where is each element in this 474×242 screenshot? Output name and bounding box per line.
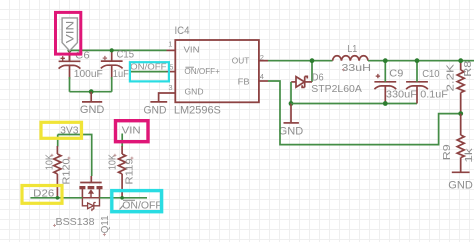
pin stub IC4 pin2 — [259, 60, 268, 62]
svg-text:GND: GND — [279, 125, 304, 137]
svg-text:0.1uF: 0.1uF — [420, 89, 448, 101]
svg-text:VIN: VIN — [65, 21, 77, 44]
net label ON/OFF (upper) — [130, 61, 167, 71]
svg-text:GND: GND — [80, 104, 105, 116]
IC IC4 LM2596S body — [175, 40, 259, 102]
body diode — [88, 203, 94, 209]
pin label ON/OFF+ — [184, 67, 220, 76]
substrate arrow — [90, 193, 92, 198]
capacitor C9 — [374, 74, 396, 104]
node junction R119-ONOFF — [120, 196, 124, 200]
svg-text:4: 4 — [260, 72, 264, 81]
wire gate from 3V3 — [91, 146, 93, 176]
wire D26 net — [30, 197, 82, 199]
svg-text:R9: R9 — [441, 144, 453, 160]
svg-text:C9: C9 — [389, 68, 403, 80]
svg-text:GND: GND — [448, 180, 473, 192]
svg-text:3: 3 — [168, 83, 172, 92]
resistor R120 — [54, 146, 61, 198]
svg-text:2.2K: 2.2K — [445, 64, 457, 92]
ground GND2 under diode — [284, 104, 299, 123]
svg-text:BSS138: BSS138 — [56, 216, 95, 228]
svg-text:OUT: OUT — [232, 56, 250, 65]
wire diode anode down — [290, 82, 292, 104]
source lead — [99, 189, 101, 198]
svg-text:GND: GND — [185, 88, 204, 97]
node junction caps-gnd — [89, 89, 94, 94]
svg-text:L1: L1 — [347, 43, 357, 55]
svg-text:ON/OFF: ON/OFF — [122, 200, 162, 211]
annotation magenta box VIN lower — [116, 121, 149, 142]
gate plate — [80, 182, 102, 184]
svg-text:IC4: IC4 — [175, 25, 190, 37]
wire caps bottom leads — [70, 77, 112, 92]
svg-text:100uF: 100uF — [74, 68, 103, 80]
wire FB net — [268, 81, 461, 145]
svg-text:ON/OFF+: ON/OFF+ — [184, 67, 220, 76]
node junction C9 top — [383, 58, 388, 63]
channel bars — [79, 186, 102, 189]
svg-text:D6: D6 — [312, 71, 324, 83]
svg-text:R119: R119 — [124, 158, 135, 185]
capacitor C10 — [406, 82, 428, 104]
node junction C9 bottom — [383, 101, 388, 106]
node junction at C6 — [67, 48, 71, 52]
node junction R8-R9-FB — [458, 111, 463, 116]
wire C10 top lead — [416, 61, 418, 82]
svg-text:FB: FB — [238, 78, 250, 87]
svg-text:C15: C15 — [117, 49, 135, 61]
svg-text:33uH: 33uH — [342, 62, 372, 74]
annotation yellow box D26 — [22, 186, 62, 204]
inductor L1 — [333, 56, 368, 61]
node junction OUT-diode — [310, 58, 315, 63]
svg-text:LM2596S: LM2596S — [174, 104, 221, 116]
text origin cross marks (Eagle anchors) — [50, 68, 345, 236]
wire C9 top lead — [384, 61, 386, 82]
wire diode branch down — [311, 61, 313, 82]
ground GND1 under caps — [82, 92, 102, 102]
svg-text:D26: D26 — [33, 188, 54, 200]
annotation cyan box ON/OFF upper — [130, 62, 169, 81]
annotation yellow box 3V3 — [41, 122, 82, 138]
svg-text:GND: GND — [144, 104, 167, 116]
annotation magenta box VIN top — [56, 12, 81, 54]
svg-text:10K: 10K — [107, 154, 118, 170]
svg-text:STP2L60A: STP2L60A — [311, 83, 362, 95]
diode D6 schottky — [291, 76, 312, 87]
node junction diode-gnd-rail — [289, 101, 294, 106]
svg-text:Q11: Q11 — [100, 215, 111, 233]
wire OUT rail after L1 — [368, 60, 474, 62]
wire OUT rail — [268, 60, 333, 62]
wire ON/OFF lower net — [100, 197, 148, 199]
wire C15 top lead — [111, 50, 113, 61]
node junction R8 top — [458, 58, 463, 63]
resistor R8 — [457, 61, 464, 114]
wire pin3 to ground — [159, 93, 176, 101]
svg-text:10K: 10K — [44, 154, 55, 170]
wire bottom rail output caps — [291, 103, 417, 105]
ground GND3 under R9 — [452, 171, 470, 173]
wire C6 top lead — [69, 48, 71, 61]
svg-text:R120: R120 — [61, 158, 72, 185]
capacitor C6 — [59, 56, 81, 79]
body diode loop — [82, 197, 99, 199]
node junction R120-D26 — [56, 196, 60, 200]
capacitor C15 — [101, 56, 123, 79]
drain lead — [81, 189, 83, 198]
wire VIN net top: flag to pin1 — [70, 49, 167, 51]
annotation cyan box ON/OFF lower — [112, 191, 162, 212]
wire bottom rail caps — [70, 91, 112, 93]
svg-text:1: 1 — [168, 39, 172, 48]
pin stub IC4 pin5 — [167, 71, 176, 73]
svg-text:VIN: VIN — [122, 126, 141, 137]
supply flag VIN top-left — [69, 51, 71, 61]
svg-text:1k: 1k — [463, 147, 474, 162]
resistor R9 — [457, 114, 464, 172]
svg-text:1uF: 1uF — [113, 68, 129, 80]
ground GND pin3 — [150, 101, 167, 103]
node junction at C15 — [110, 48, 114, 52]
node junction C10 top — [415, 58, 420, 63]
net label ON/OFF lower — [120, 200, 162, 211]
pin stub IC4 pin1 — [167, 49, 176, 51]
svg-text:VIN: VIN — [184, 45, 200, 54]
svg-text:R8: R8 — [462, 61, 474, 77]
svg-text:C10: C10 — [422, 68, 440, 80]
svg-text:330uF: 330uF — [386, 89, 417, 101]
pin stub IC4 pin4 — [259, 80, 268, 82]
wire ON/OFF net to pin5 — [130, 71, 166, 73]
resistor R119 — [119, 146, 126, 198]
